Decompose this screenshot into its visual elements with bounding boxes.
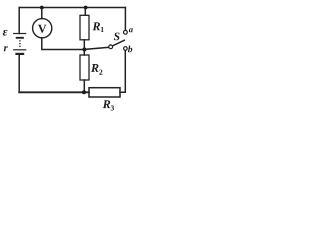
resistor R1 box — [80, 15, 89, 40]
battery cell E top long plate — [14, 33, 26, 35]
battery cell E short plate — [17, 37, 23, 39]
wire R2 bottom — [83, 80, 85, 92]
label b — [128, 46, 132, 53]
switch pivot circle — [109, 45, 113, 49]
label S — [114, 33, 120, 41]
label R1 R — [92, 22, 100, 30]
label V — [38, 25, 46, 33]
wire R3 right — [120, 50, 125, 92]
battery cell r long plate — [14, 49, 26, 51]
label R1 sub 1 — [101, 27, 104, 32]
node top R1 — [84, 6, 88, 10]
contact a circle — [124, 30, 128, 34]
node bottom R2 — [82, 90, 86, 94]
battery cell r thick short plate — [17, 53, 24, 55]
wire voltmeter bottom L — [42, 38, 85, 50]
wire R1 bottom — [83, 40, 85, 50]
contact b circle — [124, 47, 128, 51]
wire top — [19, 7, 125, 9]
label R2 sub 2 — [99, 70, 102, 75]
voltmeter V circle — [33, 19, 52, 38]
node top voltmeter — [40, 6, 44, 10]
wire right upper — [124, 8, 126, 31]
resistor R3 box — [89, 88, 120, 97]
label epsilon — [3, 30, 8, 36]
node R1 R2 junction — [82, 48, 86, 52]
wire voltmeter top — [41, 8, 43, 19]
wire R1 feed — [84, 8, 86, 16]
label R2 R — [91, 64, 99, 72]
wire left upper — [18, 8, 20, 34]
label r — [4, 46, 8, 51]
label R3 R — [103, 100, 111, 108]
resistor R2 box — [80, 55, 89, 80]
wire bottom left — [19, 91, 89, 93]
battery dotted cells — [19, 40, 21, 47]
wire left lower — [18, 54, 20, 92]
label a — [129, 28, 133, 32]
switch S lever — [113, 40, 125, 46]
wire R2 top — [83, 50, 85, 56]
label R3 sub 3 — [111, 105, 114, 110]
wire junction to switch pivot — [84, 47, 108, 49]
